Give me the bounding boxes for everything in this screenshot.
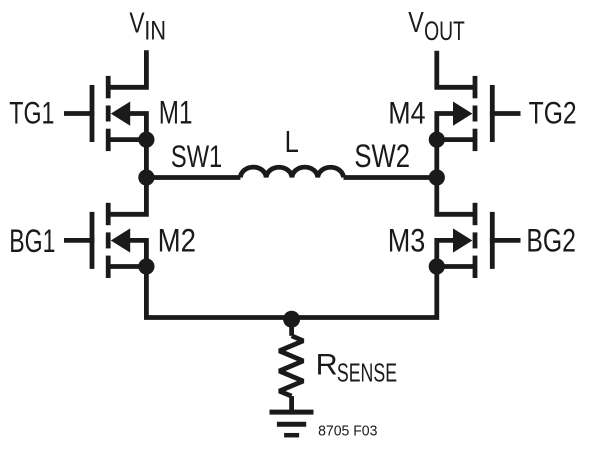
svg-text:M1: M1 (159, 95, 193, 131)
svg-text:M3: M3 (388, 222, 426, 258)
svg-text:SW2: SW2 (354, 138, 410, 174)
svg-text:OUT: OUT (424, 15, 465, 46)
svg-text:M2: M2 (158, 222, 196, 258)
svg-text:TG2: TG2 (529, 95, 577, 131)
svg-text:V: V (129, 8, 145, 40)
svg-text:BG2: BG2 (526, 222, 576, 258)
svg-text:M4: M4 (388, 94, 425, 130)
svg-text:SENSE: SENSE (337, 357, 397, 387)
svg-text:R: R (316, 349, 338, 382)
svg-text:V: V (408, 6, 424, 38)
svg-text:SW1: SW1 (171, 139, 222, 174)
svg-text:IN: IN (144, 16, 166, 46)
svg-text:TG1: TG1 (9, 95, 54, 131)
svg-text:8705 F03: 8705 F03 (318, 423, 377, 439)
svg-text:BG1: BG1 (9, 223, 55, 259)
svg-text:L: L (285, 126, 299, 159)
